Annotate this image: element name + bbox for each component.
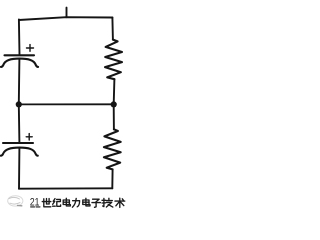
watermark logo (faint swirl emblem)	[8, 196, 23, 206]
wire: right mid node to resistor R2	[113, 105, 115, 130]
glyph 技	[102, 198, 113, 207]
terminal tick (top center input)	[66, 8, 68, 18]
glyph 世	[42, 199, 51, 207]
capacitor C1 curved plate	[1, 59, 38, 67]
wire: left vertical lower (to capacitor C2)	[18, 105, 21, 142]
wire: middle horizontal	[19, 103, 114, 105]
glyph 力	[72, 198, 79, 207]
glyph 子	[92, 199, 100, 207]
capacitor C2 straight plate	[3, 142, 33, 144]
wire: capacitor C2 lead to bottom wire	[18, 148, 20, 189]
resistor R1 zigzag	[105, 40, 122, 80]
wire: resistor R1 to right mid node	[113, 79, 116, 104]
wire: right vertical upper (to resistor R1)	[111, 18, 114, 40]
glyph 电 (second)	[83, 198, 90, 206]
node: left mid junction	[16, 101, 22, 107]
glyph 术	[115, 198, 125, 207]
watermark text "21世纪电力电子技术"	[30, 197, 125, 209]
node: right mid junction	[111, 101, 117, 107]
capacitor C2 curved plate	[1, 148, 38, 156]
resistor R2 zigzag	[104, 129, 121, 169]
glyph 电 (first)	[63, 198, 70, 206]
capacitor C1 polarity plus	[27, 45, 34, 52]
wire: top horizontal	[19, 17, 112, 20]
wire: left vertical upper (to capacitor C1)	[18, 20, 21, 55]
wire: bottom horizontal	[19, 187, 112, 189]
wire: capacitor C1 lead to left mid node	[18, 59, 21, 104]
capacitor C2 polarity plus	[26, 134, 32, 140]
wire: resistor R2 to bottom-right corner	[111, 169, 113, 188]
glyph 纪	[53, 199, 61, 207]
digits 21	[30, 197, 40, 209]
capacitor C1 straight plate	[5, 54, 35, 56]
